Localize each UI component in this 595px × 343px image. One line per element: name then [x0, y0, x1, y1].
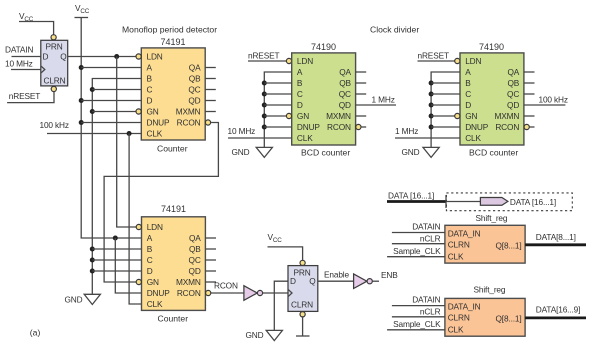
svg-text:Q[8...1]: Q[8...1]: [495, 314, 521, 324]
svg-text:CLK: CLK: [448, 251, 464, 261]
wire DATA bus (thick): [387, 200, 446, 203]
svg-text:QA: QA: [189, 233, 201, 243]
pin bubble GN U4: [136, 279, 141, 284]
pin bubble LDN U3a: [286, 58, 291, 63]
svg-text:QC: QC: [188, 85, 200, 95]
svg-text:GND: GND: [65, 295, 83, 305]
wire C U3a: [264, 93, 291, 95]
wire QD stub U4: [205, 270, 216, 272]
svg-text:RCON: RCON: [327, 122, 351, 132]
svg-text:ENB: ENB: [381, 270, 398, 280]
wire DATAIN to U8: [392, 232, 445, 234]
svg-text:MXMN: MXMN: [326, 111, 351, 121]
wire nCLR to U9: [392, 316, 445, 318]
svg-text:QD: QD: [188, 96, 200, 106]
pin bubble CLRN of U5: [300, 312, 305, 317]
wire DNUP U3b: [431, 126, 460, 128]
svg-text:QC: QC: [507, 89, 519, 99]
wire Q of U1 to LDN of U2: [68, 56, 136, 58]
svg-text:RCON: RCON: [495, 122, 519, 132]
svg-text:DATAIN: DATAIN: [412, 222, 440, 232]
wire RCON stub U3a: [361, 126, 366, 128]
pin bubble GN U3a: [286, 113, 291, 118]
pin bubble RCON U3b: [524, 124, 529, 129]
svg-text:74191: 74191: [161, 204, 186, 214]
wire D1 from VCC rail: [81, 100, 141, 102]
flip-flop U1 (DFF with PRN/CLRN): [41, 40, 68, 86]
svg-text:PRN: PRN: [294, 267, 311, 277]
svg-text:Shift_reg: Shift_reg: [474, 285, 506, 295]
wire ground bus U3b: [431, 72, 460, 147]
wire Q of U5 to inverter U7: [318, 280, 354, 282]
svg-text:RCON: RCON: [177, 118, 201, 128]
svg-text:C: C: [147, 255, 153, 265]
wire U5 D from clk net corner: [274, 281, 288, 330]
junction 100kHz/CLK2: [127, 131, 132, 136]
svg-text:(a): (a): [30, 328, 41, 338]
svg-text:10 MHz: 10 MHz: [228, 126, 256, 136]
svg-text:B: B: [147, 74, 153, 84]
svg-text:nCLR: nCLR: [420, 233, 441, 243]
svg-text:CLK: CLK: [465, 133, 481, 143]
svg-text:B: B: [297, 78, 303, 88]
ground symbol U3b: [423, 147, 439, 157]
svg-text:BCD counter: BCD counter: [301, 148, 350, 158]
wire QB stub U3a: [356, 82, 367, 84]
junction bus/GN U3b: [429, 114, 434, 119]
junction bus/D U3a: [262, 103, 267, 108]
wire QB stub U4: [205, 248, 216, 250]
pin bubble RCON U2: [205, 120, 210, 125]
wire B2/C2/D2 from ground bus: [92, 249, 141, 271]
pin bubble RCON U4: [206, 290, 211, 295]
svg-text:DATA [16...1]: DATA [16...1]: [388, 191, 434, 201]
svg-text:100 kHz: 100 kHz: [40, 120, 69, 130]
svg-text:GND: GND: [402, 147, 420, 157]
svg-text:D: D: [290, 276, 296, 286]
junction A2 tap: [113, 236, 118, 241]
wire QA stub U3b: [524, 71, 535, 73]
pin bubble PRN of U1: [51, 35, 56, 40]
wire DNUP1 from VCC rail: [81, 122, 141, 124]
svg-text:DNUP: DNUP: [297, 122, 321, 132]
svg-text:Clock divider: Clock divider: [370, 25, 419, 35]
junction GND/GN1: [90, 109, 95, 114]
wire GN1 from ground bus: [92, 111, 136, 113]
shift register U8: [445, 225, 525, 263]
ground symbol (counter bus): [84, 294, 100, 304]
pin bubble GN U2: [136, 109, 141, 114]
svg-text:LDN: LDN: [297, 56, 313, 66]
svg-text:QD: QD: [339, 100, 351, 110]
wire MXMN stub U3a: [356, 115, 367, 117]
svg-text:Monoflop period detector: Monoflop period detector: [122, 25, 217, 35]
junction bus/C U3b: [429, 92, 434, 97]
svg-text:74190: 74190: [479, 42, 504, 52]
svg-text:QC: QC: [339, 89, 351, 99]
wire CLRN U5 to ground bar: [302, 317, 304, 336]
svg-text:CLRN: CLRN: [291, 299, 313, 309]
junction VCC/DNUP1: [79, 120, 84, 125]
svg-text:Q: Q: [309, 276, 316, 286]
svg-text:A: A: [297, 67, 303, 77]
junction GND/B2: [90, 247, 95, 252]
counter U4 74191: [142, 217, 206, 311]
wire QD stub U3b (100 kHz out): [524, 104, 566, 106]
svg-text:GND: GND: [232, 147, 250, 157]
wire 100 kHz to CLK1: [47, 133, 141, 135]
wire bus tap tick: [445, 195, 447, 208]
wire 10 MHz to U1 CLK: [11, 69, 41, 71]
wire C U3b: [431, 93, 460, 95]
bus tag DATA[16...1]: [480, 198, 508, 206]
wire RCON1 feedback to GN2: [104, 123, 218, 283]
junction bus/B U3b: [429, 81, 434, 86]
wire DNUP U3a: [264, 126, 291, 128]
counter U2 74191: [141, 48, 205, 140]
junction bus/C U3a: [262, 92, 267, 97]
wire nCLR to U8: [392, 243, 445, 245]
svg-text:Enable: Enable: [324, 270, 349, 280]
shift register U9: [445, 298, 525, 336]
svg-text:MXMN: MXMN: [494, 111, 519, 121]
wire D U3a: [264, 104, 291, 106]
svg-text:74191: 74191: [161, 37, 186, 47]
svg-text:C: C: [147, 85, 153, 95]
svg-text:GND: GND: [246, 330, 264, 340]
svg-text:C: C: [297, 89, 303, 99]
wire QA stub U3a: [356, 71, 367, 73]
wire QC stub U3b: [524, 93, 535, 95]
svg-text:DNUP: DNUP: [147, 118, 171, 128]
junction GND/C2: [90, 258, 95, 263]
wire QD stub U3a (1 MHz out): [356, 104, 396, 106]
junction bus/GN U3a: [262, 114, 267, 119]
wire 1 MHz to CLK U3b: [395, 137, 460, 139]
svg-text:Counter: Counter: [158, 314, 189, 324]
svg-text:RCON: RCON: [214, 281, 238, 291]
power symbol VCC (for flip-flop U1 preset): [19, 11, 54, 35]
wire RCON U4 to inverter: [211, 292, 244, 294]
svg-text:CLRN: CLRN: [44, 76, 66, 86]
svg-text:QB: QB: [339, 78, 351, 88]
ground symbol U5 D: [266, 330, 282, 340]
pin bubble LDN U2: [136, 54, 141, 59]
svg-text:CLK: CLK: [448, 325, 464, 335]
shift chain dashed boundary: [446, 193, 572, 211]
BCD counter U3b 74190: [460, 53, 524, 145]
svg-text:BCD counter: BCD counter: [469, 148, 518, 158]
svg-text:QC: QC: [189, 255, 201, 265]
wire ground bus U3a: [264, 72, 291, 147]
svg-text:CLK: CLK: [147, 299, 163, 309]
svg-text:nRESET: nRESET: [248, 51, 279, 61]
wire D U3b: [431, 104, 460, 106]
svg-text:B: B: [465, 78, 471, 88]
wire Sample_CLK to U9: [387, 329, 445, 331]
svg-text:DATAIN: DATAIN: [5, 45, 33, 55]
wire GN U3a: [264, 115, 286, 117]
svg-text:LDN: LDN: [465, 56, 481, 66]
svg-text:D: D: [147, 96, 153, 106]
svg-text:CLK: CLK: [147, 129, 163, 139]
wire B U3a: [264, 82, 291, 84]
svg-text:nCLR: nCLR: [420, 306, 441, 316]
wire nRESET to U1 CLRN: [7, 92, 54, 103]
svg-text:DATA[8...1]: DATA[8...1]: [536, 232, 576, 242]
svg-text:GN: GN: [147, 107, 159, 117]
wire QA stub U4: [205, 237, 216, 239]
svg-text:QD: QD: [189, 266, 201, 276]
svg-text:DATA_IN: DATA_IN: [448, 302, 481, 312]
svg-text:100 kHz: 100 kHz: [539, 95, 568, 105]
pin bubble PRN of U5: [300, 260, 305, 265]
power symbol VCC (rail): [75, 3, 90, 18]
wire QA1 stub: [205, 67, 216, 69]
pin bubble inverter U6 out: [257, 290, 262, 295]
wire RCON stub U3b: [529, 126, 534, 128]
wire MXMN stub U3b: [524, 115, 535, 117]
svg-text:CLRN: CLRN: [448, 313, 470, 323]
svg-text:QB: QB: [189, 74, 201, 84]
wire B1 to ground bus: [92, 79, 141, 295]
wire QC stub U4: [205, 259, 216, 261]
junction bus/DNUP U3a: [262, 125, 267, 130]
junction VCC/A1: [79, 65, 84, 70]
svg-text:D: D: [43, 52, 49, 62]
wire GN U3b: [431, 115, 455, 117]
wire 100 kHz down to CLK of U4: [129, 134, 141, 305]
wire DATAIN to U9: [392, 305, 445, 307]
wire VCC rail vertical: [81, 18, 141, 239]
junction bus/D U3b: [429, 103, 434, 108]
svg-text:Sample_CLK: Sample_CLK: [393, 319, 441, 329]
wire DATA[8...1] out (thick): [525, 243, 586, 246]
pin bubble GN U3b: [455, 113, 460, 118]
svg-text:Sample_CLK: Sample_CLK: [393, 246, 441, 256]
svg-text:1 MHz: 1 MHz: [372, 95, 395, 105]
pin bubble inverter U7 out: [367, 279, 372, 284]
svg-text:A: A: [147, 233, 153, 243]
wire B U3b: [431, 82, 460, 84]
svg-text:GN: GN: [465, 111, 477, 121]
pin bubble CLRN of U1: [51, 86, 56, 91]
svg-text:QA: QA: [507, 67, 519, 77]
svg-text:10 MHz: 10 MHz: [5, 59, 33, 69]
svg-text:DATA_IN: DATA_IN: [448, 229, 481, 239]
svg-text:LDN: LDN: [147, 52, 163, 62]
svg-text:A: A: [465, 67, 471, 77]
BCD counter U3a 74190: [292, 53, 356, 145]
svg-text:D: D: [147, 266, 153, 276]
wire C1 from ground bus: [92, 89, 141, 91]
svg-text:nRESET: nRESET: [418, 51, 449, 61]
svg-text:DNUP: DNUP: [465, 122, 489, 132]
wire Sample_CLK to U8: [387, 256, 445, 258]
svg-text:GN: GN: [297, 111, 309, 121]
svg-text:QB: QB: [189, 244, 201, 254]
wire DATA[16...9] out (thick): [525, 316, 586, 319]
svg-text:Q[8...1]: Q[8...1]: [495, 241, 521, 251]
wire MXMN stub U4: [205, 281, 216, 283]
flip-flop U5 (DFF with PRN/CLRN): [288, 266, 318, 312]
svg-text:Counter: Counter: [157, 144, 188, 154]
junction bus/DNUP U3b: [429, 125, 434, 130]
power symbol VCC (U5 preset): [268, 232, 303, 260]
wire bus into tag: [446, 201, 480, 203]
svg-text:1 MHz: 1 MHz: [395, 126, 418, 136]
pin bubble LDN U4: [136, 224, 141, 229]
svg-text:QB: QB: [507, 78, 519, 88]
svg-text:DATA [16...1]: DATA [16...1]: [510, 197, 556, 207]
svg-text:C: C: [465, 89, 471, 99]
svg-text:QD: QD: [507, 100, 519, 110]
svg-text:D: D: [465, 100, 471, 110]
svg-text:D: D: [297, 100, 303, 110]
junction GND/C1: [90, 87, 95, 92]
svg-text:Q: Q: [60, 52, 67, 62]
pin bubble RCON U3a: [356, 124, 361, 129]
svg-text:A: A: [147, 63, 153, 73]
wire Q net down to LDN of U4: [117, 57, 137, 228]
wire A2/DNUP2 tie: [115, 238, 141, 293]
svg-text:74190: 74190: [311, 42, 336, 52]
wire QB stub U3b: [524, 82, 535, 84]
wire 10 MHz to CLK U3a: [228, 137, 292, 139]
svg-text:MXMN: MXMN: [176, 107, 201, 117]
svg-text:DNUP: DNUP: [147, 288, 171, 298]
junction GND/D2: [90, 269, 95, 274]
svg-text:PRN: PRN: [46, 42, 63, 52]
wire nRESET to LDN U3b: [418, 60, 455, 62]
wire DATAIN to U1 D: [12, 56, 41, 58]
inverter U6 (RCON): [244, 286, 257, 301]
wire MXMN1 stub: [205, 111, 216, 113]
svg-text:QA: QA: [339, 67, 351, 77]
wire QB1 stub: [205, 78, 216, 80]
junction VCC/D1: [79, 98, 84, 103]
svg-text:RCON: RCON: [177, 288, 201, 298]
wire nRESET to LDN U3a: [248, 60, 286, 62]
wire A1 from VCC rail: [81, 67, 141, 69]
ground symbol U3a: [256, 147, 272, 157]
wire QD1 stub: [205, 100, 216, 102]
svg-text:nRESET: nRESET: [9, 91, 40, 101]
ground bar symbol (U5 CLRN): [296, 335, 310, 337]
wire QC stub U3a: [356, 93, 367, 95]
svg-text:DATA[16...9]: DATA[16...9]: [536, 305, 580, 315]
pin bubble LDN U3b: [455, 58, 460, 63]
svg-text:GN: GN: [147, 277, 159, 287]
svg-text:MXMN: MXMN: [176, 277, 201, 287]
wire inverter U6 to U5 clk: [263, 292, 288, 294]
wire QC1 stub: [205, 89, 216, 91]
wire inverter U7 to ENB: [372, 280, 379, 282]
svg-text:DATAIN: DATAIN: [412, 295, 440, 305]
svg-text:LDN: LDN: [147, 222, 163, 232]
svg-text:Shift_reg: Shift_reg: [476, 213, 508, 223]
junction bus/B U3a: [262, 81, 267, 86]
svg-text:CLK: CLK: [297, 133, 313, 143]
inverter U7 (ENB): [354, 274, 367, 289]
svg-text:B: B: [147, 244, 153, 254]
svg-text:CLRN: CLRN: [448, 240, 470, 250]
svg-text:QA: QA: [189, 63, 201, 73]
junction Q/LDN net: [114, 54, 119, 59]
